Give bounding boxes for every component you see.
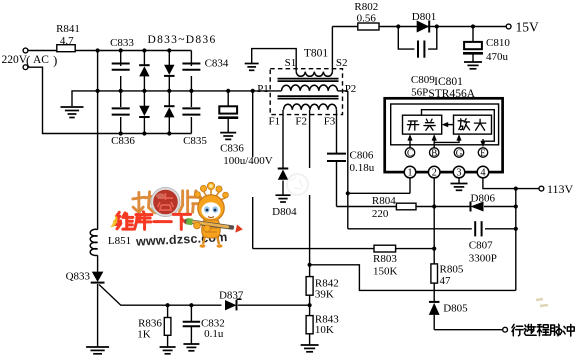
svg-text:0.1u: 0.1u bbox=[204, 328, 224, 340]
svg-text:B: B bbox=[431, 148, 437, 158]
svg-text:AC: AC bbox=[33, 54, 49, 66]
svg-text:2: 2 bbox=[432, 168, 437, 179]
svg-text:P1: P1 bbox=[257, 83, 269, 95]
svg-text:S2: S2 bbox=[336, 57, 348, 69]
svg-text:C836: C836 bbox=[111, 135, 135, 147]
svg-text:56P: 56P bbox=[411, 87, 428, 99]
svg-text:P2: P2 bbox=[345, 83, 357, 95]
svg-text:150K: 150K bbox=[373, 266, 398, 278]
svg-text:T801: T801 bbox=[304, 48, 329, 60]
svg-text:4.7: 4.7 bbox=[60, 35, 74, 47]
svg-text:): ) bbox=[53, 53, 57, 68]
svg-text:C835: C835 bbox=[183, 135, 207, 147]
svg-text:D837: D837 bbox=[219, 290, 244, 302]
svg-text:113V: 113V bbox=[547, 182, 574, 196]
svg-text:470u: 470u bbox=[486, 51, 509, 63]
svg-text:D805: D805 bbox=[443, 303, 468, 315]
svg-text:R804: R804 bbox=[372, 195, 396, 207]
svg-text:C810: C810 bbox=[486, 37, 510, 49]
svg-text:D801: D801 bbox=[412, 11, 436, 23]
svg-text:10K: 10K bbox=[315, 324, 334, 336]
svg-text:(: ( bbox=[26, 53, 30, 68]
svg-text:F1: F1 bbox=[268, 116, 280, 128]
svg-text:1: 1 bbox=[408, 168, 413, 179]
svg-text:3300P: 3300P bbox=[469, 253, 497, 265]
svg-text:R841: R841 bbox=[56, 23, 80, 35]
svg-text:R803: R803 bbox=[373, 253, 397, 265]
svg-text:IC801: IC801 bbox=[434, 76, 463, 88]
svg-text:0.56: 0.56 bbox=[357, 13, 377, 25]
svg-text:D833~D836: D833~D836 bbox=[147, 34, 216, 46]
svg-text:220V: 220V bbox=[2, 54, 28, 66]
svg-text:1K: 1K bbox=[137, 329, 151, 341]
svg-text:D806: D806 bbox=[471, 193, 496, 205]
svg-text:C834: C834 bbox=[205, 58, 229, 70]
svg-text:220: 220 bbox=[372, 208, 389, 220]
svg-text:S1: S1 bbox=[285, 57, 297, 69]
svg-text:C807: C807 bbox=[469, 240, 493, 252]
svg-text:E: E bbox=[480, 148, 486, 158]
svg-text:D804: D804 bbox=[272, 206, 297, 218]
svg-text:100u/400V: 100u/400V bbox=[223, 155, 273, 167]
svg-text:39K: 39K bbox=[315, 289, 334, 301]
svg-text:L851: L851 bbox=[108, 235, 131, 247]
svg-text:G: G bbox=[456, 148, 463, 158]
svg-text:C806: C806 bbox=[350, 150, 374, 162]
svg-text:C833: C833 bbox=[110, 37, 134, 49]
svg-text:Q833: Q833 bbox=[66, 271, 91, 283]
svg-text:47: 47 bbox=[440, 275, 452, 287]
svg-text:3: 3 bbox=[457, 168, 462, 179]
svg-text:C: C bbox=[407, 148, 413, 158]
svg-text:4: 4 bbox=[481, 168, 486, 179]
svg-text:0.18u: 0.18u bbox=[350, 162, 375, 174]
svg-text:F2: F2 bbox=[295, 116, 307, 128]
svg-text:15V: 15V bbox=[516, 20, 540, 35]
svg-text:STR456A: STR456A bbox=[428, 88, 475, 100]
svg-text:F3: F3 bbox=[324, 116, 336, 128]
svg-text:C809: C809 bbox=[411, 74, 435, 86]
svg-text:C836: C836 bbox=[220, 143, 244, 155]
svg-text:R802: R802 bbox=[354, 1, 378, 13]
svg-text:R805: R805 bbox=[440, 264, 464, 276]
